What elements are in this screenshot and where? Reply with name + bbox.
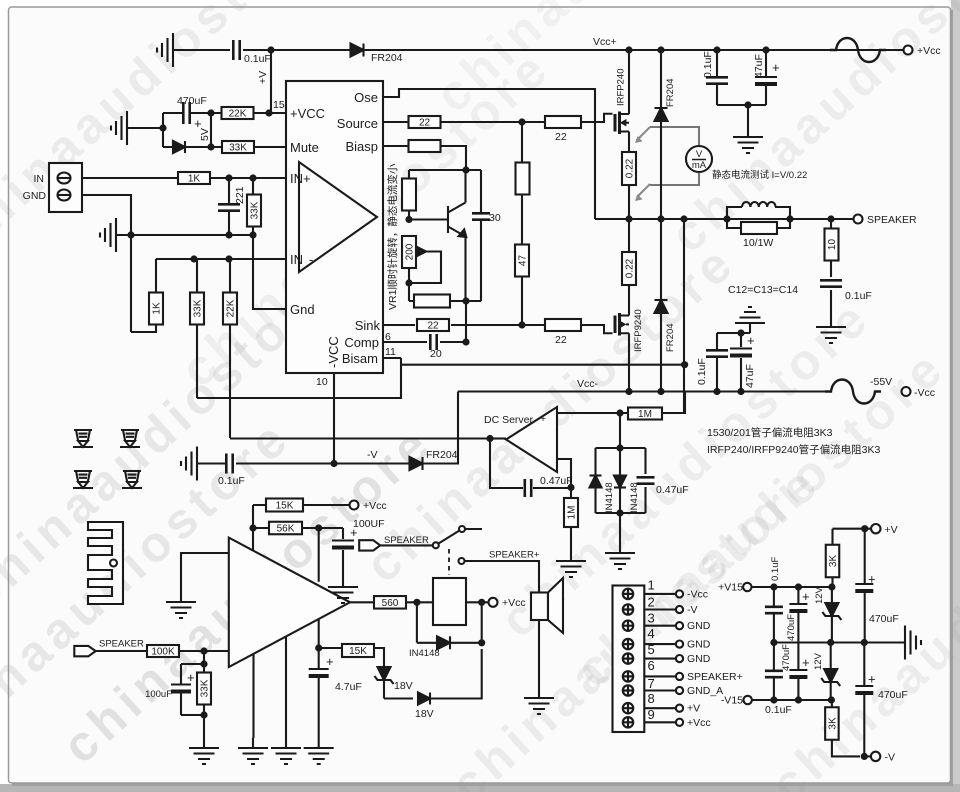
resistor 22K: [211, 112, 286, 114]
svg-text:+VCC: +VCC: [290, 106, 325, 121]
tag SPEAKER relay feed: [359, 540, 380, 550]
svg-text:22K: 22K: [226, 299, 237, 317]
svg-text:8: 8: [648, 691, 655, 706]
tag SPEAKER input: [74, 646, 95, 656]
svg-text:+Vcc: +Vcc: [363, 500, 387, 512]
wire: [186, 113, 212, 147]
svg-text:47uF: 47uF: [744, 364, 756, 388]
wire comp link: [465, 301, 467, 342]
svg-text:SPEAKER+: SPEAKER+: [489, 550, 540, 561]
svg-text:V: V: [696, 149, 703, 160]
svg-text:+: +: [802, 589, 810, 604]
wire -15 rail: [752, 699, 832, 701]
resistor 22 (2): [545, 116, 581, 128]
svg-text:1K: 1K: [152, 302, 163, 315]
svg-text:7: 7: [648, 676, 655, 691]
resistor 22: [409, 116, 441, 128]
wire Vcc+ rail: [364, 49, 904, 51]
svg-text:Comp: Comp: [344, 335, 379, 350]
resistor 1K: [178, 172, 210, 184]
svg-text:9: 9: [648, 707, 655, 722]
svg-text:470uF: 470uF: [786, 614, 797, 641]
wire: [181, 651, 204, 738]
diode 5V zener: [173, 141, 185, 153]
resistor 1K vertical: [149, 293, 163, 325]
terminal -V: [871, 752, 880, 761]
capacitor 20: [430, 334, 436, 350]
wire servo out: [230, 437, 490, 439]
svg-text:470uF: 470uF: [781, 644, 792, 671]
svg-text:10/1W: 10/1W: [743, 237, 773, 249]
svg-text:GND: GND: [23, 190, 47, 202]
svg-text:FR204: FR204: [426, 449, 458, 461]
svg-text:IRFP9240: IRFP9240: [633, 309, 644, 352]
opamp DC Server: [506, 407, 557, 472]
svg-text:Bisam: Bisam: [342, 351, 378, 366]
resistor 10 zobel: [830, 219, 832, 277]
ground: [238, 738, 268, 764]
svg-text:FR204: FR204: [371, 52, 403, 64]
resistor 33K: [197, 673, 211, 705]
ground: [100, 218, 116, 252]
svg-text:DC Server: DC Server: [484, 414, 534, 426]
svg-text:0.22: 0.22: [625, 158, 636, 178]
svg-text:10: 10: [316, 376, 328, 388]
capacitor 221: [228, 178, 230, 235]
svg-text:-V: -V: [367, 449, 378, 461]
svg-text:+V: +V: [885, 524, 898, 536]
svg-text:IRFP240/IRFP9240管子偏流电阻3K3: IRFP240/IRFP9240管子偏流电阻3K3: [707, 443, 880, 456]
svg-text:22: 22: [555, 131, 567, 143]
ground: [816, 317, 846, 343]
svg-text:18V: 18V: [394, 680, 413, 692]
wire bisam to servo column: [401, 364, 685, 366]
inductor: [727, 207, 790, 219]
diode FR204 top: [351, 44, 364, 57]
svg-text:0.1uF: 0.1uF: [770, 557, 781, 581]
svg-text:221: 221: [234, 186, 246, 204]
potentiometer 200: [402, 236, 416, 268]
svg-text:0.1uF: 0.1uF: [244, 53, 271, 65]
svg-text:Sink: Sink: [355, 318, 381, 333]
wire Sink: [383, 324, 584, 326]
svg-text:SPEAKER+: SPEAKER+: [687, 671, 743, 683]
terminal +Vcc: [350, 501, 359, 510]
svg-text:+Vcc: +Vcc: [502, 597, 526, 609]
amp pin wires: [254, 637, 287, 738]
svg-text:470uF: 470uF: [177, 95, 207, 107]
resistor 33K: [211, 146, 286, 148]
svg-text:-: -: [309, 252, 313, 267]
svg-text:-VCC: -VCC: [326, 336, 341, 368]
svg-text:33K: 33K: [250, 201, 261, 219]
capacitor 47uF minus: [730, 348, 752, 350]
svg-text:47: 47: [518, 255, 529, 267]
svg-text:-V15: -V15: [721, 695, 743, 707]
svg-text:SPEAKER: SPEAKER: [384, 535, 429, 546]
svg-text:-Vcc: -Vcc: [914, 387, 935, 399]
terminal pin 9: [623, 717, 633, 727]
svg-text:FR204: FR204: [665, 78, 676, 107]
resistor 33K vertical: [252, 178, 254, 235]
resistor 22 (4): [545, 319, 581, 331]
middle rail: [774, 641, 905, 643]
svg-text:+Vcc: +Vcc: [687, 717, 711, 729]
terminal block: [613, 586, 645, 733]
capacitor 0.1uF minus: [706, 350, 728, 356]
svg-text:3K: 3K: [828, 717, 839, 730]
wire Biasp: [383, 146, 466, 170]
svg-text:22K: 22K: [229, 109, 247, 120]
ground right: [905, 626, 921, 660]
zener 18V 2: [418, 693, 430, 705]
terminal -Vcc: [902, 387, 911, 396]
resistor 1M: [628, 408, 662, 420]
fuse squiggle bottom: [825, 380, 881, 404]
svg-text:560: 560: [382, 598, 399, 609]
wire cap join: [717, 104, 766, 106]
zener 12V top: [831, 587, 833, 643]
terminal pin 4: [623, 639, 633, 649]
svg-text:+: +: [187, 670, 195, 685]
wire GND: [82, 195, 253, 235]
probe arrow 2: [635, 184, 650, 201]
svg-text:+V: +V: [687, 703, 700, 715]
svg-text:-V: -V: [687, 604, 698, 616]
svg-text:4: 4: [648, 626, 655, 641]
svg-text:33K: 33K: [193, 299, 204, 317]
svg-text:12V: 12V: [813, 652, 824, 670]
svg-text:+: +: [802, 655, 810, 670]
svg-text:0.47uF: 0.47uF: [540, 475, 573, 487]
terminal -V15: [744, 696, 752, 704]
svg-text:47uF: 47uF: [753, 54, 765, 78]
svg-text:+: +: [868, 672, 876, 687]
ground: [304, 738, 334, 764]
probe arrow 1: [635, 127, 650, 143]
resistor 10/1W: [727, 219, 790, 228]
svg-text:0.1uF: 0.1uF: [845, 290, 872, 302]
svg-text:0.1uF: 0.1uF: [765, 704, 792, 716]
svg-text:+V: +V: [257, 71, 269, 84]
svg-text:+: +: [540, 413, 546, 425]
svg-text:Biasp: Biasp: [345, 139, 378, 154]
svg-text:470uF: 470uF: [878, 689, 908, 701]
svg-text:0.22: 0.22: [625, 258, 636, 278]
amp triangle: [229, 538, 350, 667]
capacitor 100uF input: [171, 684, 191, 686]
resistor 560: [374, 596, 406, 609]
svg-text:IN4148: IN4148: [409, 648, 440, 659]
svg-text:3: 3: [648, 610, 655, 625]
bias bottom rail: [409, 300, 481, 302]
svg-text:Mute: Mute: [290, 140, 319, 155]
ground: [271, 738, 301, 764]
wire pin10: [333, 373, 335, 464]
svg-text:0.1uF: 0.1uF: [218, 475, 245, 487]
svg-text:15K: 15K: [349, 646, 367, 657]
ground: [166, 592, 196, 618]
transistor IRFP240: [581, 112, 629, 135]
svg-text:VR1顺时针旋转，静态电流变小: VR1顺时针旋转，静态电流变小: [386, 163, 399, 310]
terminal pin 6: [623, 671, 633, 681]
resistor 22K vertical: [229, 259, 231, 438]
svg-text:C12=C13=C14: C12=C13=C14: [728, 284, 798, 296]
svg-text:3K: 3K: [828, 555, 839, 568]
svg-text:+: +: [326, 654, 334, 669]
node +V drop: [267, 46, 274, 53]
svg-text:5: 5: [648, 642, 655, 657]
svg-text:200: 200: [405, 243, 416, 260]
ground: [733, 127, 763, 153]
wire relay right: [466, 601, 489, 603]
svg-text:Ose: Ose: [354, 90, 378, 105]
diode IN4148 relay: [417, 602, 482, 643]
resistor 15K bottom: [319, 648, 384, 666]
wire Ose bootstrap: [383, 89, 595, 219]
svg-text:静态电流测试 I=V/0.22: 静态电流测试 I=V/0.22: [712, 169, 807, 181]
wire 100K input: [96, 650, 229, 652]
op-amp IC box: [286, 81, 383, 373]
wire source down: [628, 132, 630, 153]
wire: [252, 505, 254, 551]
svg-text:+Vcc: +Vcc: [917, 45, 941, 57]
svg-text:1: 1: [648, 577, 655, 592]
svg-text:IN4148: IN4148: [629, 482, 640, 513]
resistor 15K top: [253, 504, 350, 506]
wire servo out: [490, 437, 506, 439]
connector IN/GND: [49, 163, 82, 212]
terminal +V: [871, 524, 880, 533]
svg-text:33K: 33K: [200, 679, 211, 697]
svg-text:0.1uF: 0.1uF: [702, 51, 714, 78]
svg-text:470uF: 470uF: [869, 613, 899, 625]
capacitor 0.1uF zobel: [820, 280, 842, 286]
wire servo sense: [683, 219, 685, 413]
svg-text:GND_A: GND_A: [687, 685, 723, 697]
capacitor 470uF right top: [864, 529, 866, 643]
svg-text:IN: IN: [290, 252, 303, 267]
ground: [181, 447, 197, 481]
svg-text:30: 30: [489, 212, 501, 224]
wire: [127, 113, 211, 147]
svg-text:IRFP240: IRFP240: [616, 69, 627, 107]
resistor 3K bottom: [832, 700, 860, 756]
svg-text:mA: mA: [692, 160, 707, 171]
wire: [243, 49, 351, 51]
wire top rail left: [173, 49, 230, 51]
contact SPEAKER+: [459, 558, 465, 564]
svg-text:100UF: 100UF: [353, 518, 385, 530]
transistor IRFP9240: [581, 313, 629, 336]
resistor 22 sink: [417, 319, 449, 331]
svg-text:6: 6: [648, 658, 655, 673]
zener 18V: [378, 667, 391, 680]
capacitor 0.1uF top left: [773, 587, 775, 643]
terminal SPEAKER: [854, 215, 863, 224]
transistor Q1: [409, 170, 466, 301]
svg-text:10: 10: [827, 239, 838, 251]
speaker: [531, 593, 548, 621]
capacitor 0.1uF servo: [226, 454, 232, 474]
ground: [524, 688, 554, 714]
resistor 3K top: [831, 529, 833, 587]
resistor 100K: [147, 645, 179, 657]
feedback cap 0.47uF: [490, 439, 571, 489]
svg-text:15: 15: [273, 99, 285, 111]
ground ref wire: [181, 553, 229, 592]
meter V/mA: [650, 127, 699, 185]
svg-text:22: 22: [555, 334, 567, 346]
terminal pin 3: [623, 621, 633, 631]
svg-text:-55V: -55V: [870, 376, 892, 388]
svg-text:-Vcc: -Vcc: [687, 588, 708, 600]
capacitor 0.1uF rail: [713, 46, 720, 53]
fuse squiggle top: [830, 38, 886, 62]
wire drain up: [628, 50, 630, 114]
svg-text:+: +: [868, 572, 876, 587]
output rail: [595, 218, 858, 220]
wire servo top input: [557, 392, 685, 414]
svg-text:11: 11: [385, 346, 396, 358]
capacitor 4.7uF: [318, 648, 320, 738]
svg-text:Source: Source: [337, 116, 378, 131]
wire bisam feedback: [197, 358, 401, 398]
terminal pin 5: [623, 653, 633, 663]
wire: [380, 544, 433, 546]
ground inverted: [735, 307, 765, 333]
svg-text:1M: 1M: [567, 506, 578, 520]
svg-text:5V: 5V: [199, 128, 211, 141]
zener 12V bottom: [830, 643, 832, 701]
terminal pin 7: [623, 685, 633, 695]
resistor 47: [515, 245, 529, 277]
diode FR204 column top: [660, 50, 662, 219]
svg-text:Vcc-: Vcc-: [577, 378, 599, 390]
svg-text:GND: GND: [687, 620, 711, 632]
svg-text:+: +: [772, 60, 780, 75]
diode pair IN4148: [596, 413, 646, 543]
capacitor 470uF: [183, 102, 189, 124]
capacitor 30: [480, 170, 482, 301]
svg-text:SPEAKER: SPEAKER: [99, 639, 144, 650]
diode FR204 column bottom: [660, 219, 662, 391]
diode FR204 servo: [410, 457, 423, 470]
svg-text:SPEAKER: SPEAKER: [867, 214, 917, 226]
terminal pin 1: [623, 589, 633, 599]
svg-text:18V: 18V: [415, 708, 434, 720]
svg-text:22: 22: [419, 118, 431, 129]
capacitor 0.1uF bottom left: [773, 643, 775, 701]
terminal +Vcc relay: [489, 598, 498, 607]
capacitor 0.1uF series: [233, 40, 239, 60]
svg-text:Gnd: Gnd: [290, 302, 315, 317]
capacitor 0.47uF: [637, 477, 655, 483]
svg-text:IN+: IN+: [290, 171, 311, 186]
svg-text:1530/201管子偏流电阻3K3: 1530/201管子偏流电阻3K3: [707, 426, 833, 439]
svg-text:+: +: [747, 333, 755, 348]
relay: [433, 578, 466, 625]
resistor biasp: [409, 140, 441, 152]
svg-text:IN: IN: [34, 173, 45, 185]
heatsink: [88, 522, 123, 604]
svg-text:12V: 12V: [814, 586, 825, 604]
svg-text:15K: 15K: [276, 501, 294, 512]
op-amp triangle: [299, 162, 377, 272]
wire Vcc- rail: [458, 390, 829, 392]
capacitor 470uF bottom: [797, 643, 799, 701]
wire: [717, 333, 750, 392]
screw icons: [73, 430, 93, 447]
terminal +V15: [743, 583, 751, 591]
ground: [189, 738, 219, 764]
svg-text:4.7uF: 4.7uF: [335, 681, 362, 693]
svg-text:-V: -V: [885, 752, 896, 764]
terminal +Vcc: [904, 46, 913, 55]
svg-text:IN4148: IN4148: [604, 482, 615, 513]
svg-text:2: 2: [648, 594, 655, 609]
svg-text:GND: GND: [687, 639, 711, 651]
svg-text:0.1uF: 0.1uF: [696, 358, 708, 385]
resistor 1M vertical: [570, 488, 572, 551]
resistor 33K vertical: [196, 259, 198, 398]
capacitor 470uF right bottom: [863, 643, 865, 757]
svg-text:FR204: FR204: [665, 323, 676, 352]
svg-text:100uF: 100uF: [145, 689, 172, 700]
ground: [157, 33, 173, 67]
resistor vertical: [408, 170, 410, 220]
terminal pin 8: [623, 703, 633, 713]
+V rail: [833, 528, 872, 530]
resistor bottom: [414, 295, 450, 308]
capacitor 100uF: [342, 528, 344, 577]
terminal pin 2: [623, 604, 633, 614]
resistor 56K: [253, 527, 343, 529]
svg-text:56K: 56K: [277, 524, 295, 535]
svg-text:Vcc+: Vcc+: [593, 36, 617, 48]
wire IN+: [82, 177, 286, 179]
wire 56K node down: [318, 528, 320, 648]
resistor 0.22 top: [622, 152, 636, 185]
switch contact: [433, 542, 439, 548]
wire -V feed: [236, 392, 458, 464]
resistor no label: [521, 122, 523, 244]
wire: [430, 649, 482, 699]
svg-text:GND: GND: [687, 653, 711, 665]
wire Comp: [383, 341, 466, 343]
wire: [384, 697, 413, 699]
svg-text:+V15: +V15: [718, 582, 743, 594]
ground: [605, 543, 635, 569]
ground: [328, 577, 358, 603]
svg-text:22: 22: [427, 321, 439, 332]
wire IN-: [156, 259, 286, 293]
ground: [556, 551, 586, 577]
svg-text:20: 20: [430, 348, 442, 360]
svg-text:1K: 1K: [188, 174, 201, 185]
ground: [111, 111, 127, 145]
wire Source: [383, 121, 584, 123]
capacitor 470uF top: [797, 587, 799, 643]
svg-text:0.47uF: 0.47uF: [656, 484, 689, 496]
svg-text:100K: 100K: [151, 647, 175, 658]
wire +15 rail: [752, 586, 832, 588]
svg-text:1M: 1M: [638, 409, 652, 420]
amp output wire: [350, 601, 433, 603]
resistor 0.22 bottom: [628, 219, 630, 252]
pot wiper arrow: [409, 252, 441, 284]
bias network top rail: [409, 169, 481, 171]
